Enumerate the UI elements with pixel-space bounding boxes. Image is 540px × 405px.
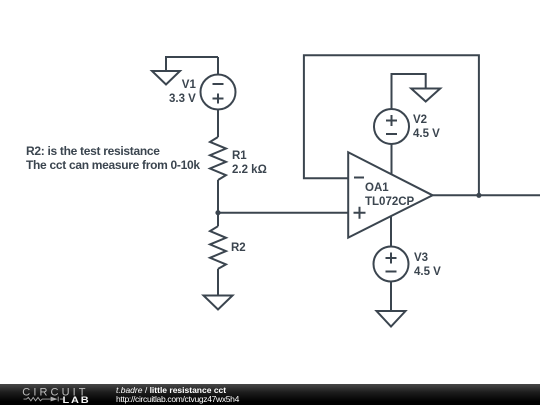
ground GND1 top-left [152, 71, 180, 85]
wire node A to op-amp + input [218, 212, 348, 214]
wire V2 top to ground [392, 74, 426, 109]
ground GND2 below R2 [204, 296, 233, 310]
wire op-amp bottom edge to V3 [390, 216, 392, 247]
ground GND4 below V3 [377, 311, 406, 327]
op-amp OA1 triangle [348, 152, 432, 237]
label OA1 TL072CP [365, 182, 414, 210]
label V2 value [413, 114, 440, 142]
annotation text [26, 144, 200, 172]
footer credit line [116, 386, 226, 395]
voltage source V3 [374, 247, 409, 282]
footer bar [0, 384, 540, 405]
CircuitLab logo [0, 384, 540, 405]
label R2 [231, 242, 246, 256]
op-amp - input symbol [354, 177, 364, 179]
wire node A to R2 [217, 213, 219, 227]
op-amp + input symbol [354, 207, 366, 219]
voltage source V1 [201, 75, 236, 110]
footer url [116, 395, 239, 404]
junction node A dot [215, 210, 220, 215]
label V3 value [414, 252, 441, 280]
voltage source V2 [374, 109, 409, 144]
wire op-amp output [433, 194, 540, 196]
wire V1 top lead [217, 57, 219, 75]
junction output node dot [476, 193, 481, 198]
wire V1 bottom to R1 [217, 110, 219, 138]
resistor R2 [210, 226, 226, 269]
wire R1 bottom to node A [217, 180, 219, 213]
wire top-left: V1 top to ground [166, 57, 218, 71]
wire V2 bottom to op-amp top edge [391, 144, 393, 174]
svg-text:LAB: LAB [63, 396, 91, 405]
label V1 value [169, 79, 196, 107]
wire R2 bottom to ground [217, 269, 219, 296]
label R1 value [232, 150, 267, 178]
ground GND3 top-right [411, 89, 440, 102]
wire feedback: - input to loop [304, 55, 479, 195]
wire V3 bottom to ground [390, 282, 392, 312]
resistor R1 [210, 137, 226, 180]
